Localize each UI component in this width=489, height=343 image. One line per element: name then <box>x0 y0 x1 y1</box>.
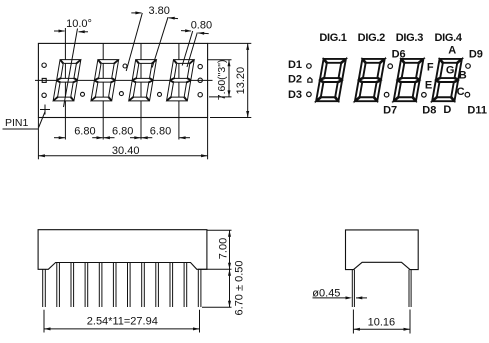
pin 10 <box>169 263 171 308</box>
pin 12 <box>197 269 199 307</box>
dp dot D8 <box>422 93 427 98</box>
svg-text:D11: D11 <box>467 104 487 116</box>
pin 5 <box>98 263 100 308</box>
dimension 7.60(3) digit height <box>208 59 232 61</box>
7-segment digit DIG.2 (diagram) <box>355 59 385 101</box>
dimension 6.70 +/- 0.50 pin length <box>202 306 232 308</box>
svg-text:D7: D7 <box>383 104 397 116</box>
colon top dot D6 <box>388 64 393 69</box>
end-view body outline <box>346 230 419 270</box>
right hole bottom <box>198 93 202 97</box>
PIN1 leader line <box>3 128 39 130</box>
pin 2 <box>56 263 58 308</box>
7-segment digit DIG.1 (diagram) <box>316 59 346 101</box>
svg-text:3.80: 3.80 <box>148 5 169 17</box>
decimal point after digit3 <box>158 92 162 96</box>
svg-text:2.54*11=27.94: 2.54*11=27.94 <box>87 315 158 327</box>
7-segment digit 2 (face view) <box>91 60 119 101</box>
left hole bottom <box>42 93 46 97</box>
svg-text:G: G <box>446 65 455 77</box>
7-segment digit 4 (face view) <box>167 60 195 101</box>
colon lower dot <box>119 92 123 96</box>
dimension 2.54*11=27.94 <box>43 310 45 333</box>
polarity + mark <box>40 109 50 111</box>
svg-text:B: B <box>459 70 467 82</box>
horizontal centerline <box>35 79 213 81</box>
D2 dot (pentagon) <box>308 78 312 83</box>
dimension 7.00 body height <box>207 229 232 231</box>
svg-text:PIN1: PIN1 <box>5 117 29 129</box>
pin 6 <box>112 263 114 308</box>
svg-text:6.70 ± 0.50: 6.70 ± 0.50 <box>234 261 246 316</box>
svg-text:D3: D3 <box>288 89 302 101</box>
svg-text:C: C <box>457 86 465 98</box>
svg-text:6.80: 6.80 <box>112 126 133 138</box>
dimension 10.16 pin spacing <box>352 310 354 334</box>
pin 1 <box>42 269 44 307</box>
svg-text:7.60("3"): 7.60("3") <box>216 60 228 101</box>
right hole top <box>198 64 202 68</box>
svg-text:E: E <box>425 80 432 92</box>
7-segment digit DIG.4 (diagram) <box>432 59 462 101</box>
svg-text:10.16: 10.16 <box>368 316 396 328</box>
svg-text:A: A <box>448 45 456 57</box>
left hole middle (square) <box>42 78 46 82</box>
svg-text:6.80: 6.80 <box>74 126 95 138</box>
7-segment digit 1 (face view) <box>53 60 81 101</box>
decimal point after digit1 <box>81 92 85 96</box>
7-segment digit 3 (face view) <box>129 60 157 101</box>
svg-text:D1: D1 <box>288 59 302 71</box>
pin 9 <box>155 263 157 308</box>
svg-text:DIG.4: DIG.4 <box>434 32 462 44</box>
svg-text:0.80: 0.80 <box>191 19 212 31</box>
svg-text:D2: D2 <box>288 74 302 86</box>
svg-text:7.00: 7.00 <box>217 238 229 259</box>
svg-text:DIG.3: DIG.3 <box>396 32 423 44</box>
end-view left pin <box>351 270 353 307</box>
svg-text:D: D <box>443 104 451 116</box>
pin 4 <box>84 263 86 308</box>
right hole middle <box>198 78 202 82</box>
svg-text:DIG.1: DIG.1 <box>319 32 346 44</box>
svg-text:D8: D8 <box>422 104 436 116</box>
digit centerlines (vertical) <box>64 28 66 140</box>
D3 dot <box>307 92 312 97</box>
left hole top <box>42 63 46 67</box>
svg-text:6.80: 6.80 <box>150 126 171 138</box>
pin 8 <box>141 263 143 308</box>
7-segment digit DIG.3 (diagram) <box>394 59 424 101</box>
svg-text:10.0°: 10.0° <box>66 18 92 30</box>
10deg slant reference line <box>64 29 78 108</box>
pin 3 <box>70 263 72 308</box>
dimension 30.40 overall width <box>37 118 39 160</box>
pin 11 <box>183 263 185 308</box>
dimension 13.20 overall height <box>208 42 252 44</box>
svg-text:13.20: 13.20 <box>235 67 247 95</box>
end-view right pin <box>408 270 410 307</box>
display package outline (30.40 x 13.20) <box>38 43 207 117</box>
svg-text:DIG.2: DIG.2 <box>358 32 385 44</box>
dp dot D9 <box>466 64 471 69</box>
colon bottom dot D7 <box>384 92 389 97</box>
colon upper dot <box>123 64 127 68</box>
D1 dot <box>307 64 312 69</box>
pin 7 <box>127 263 129 308</box>
svg-text:D6: D6 <box>392 48 406 60</box>
dp dot D11 <box>465 92 470 97</box>
svg-text:F: F <box>427 62 434 74</box>
side-view body outline <box>38 230 207 270</box>
svg-text:D9: D9 <box>469 48 483 60</box>
